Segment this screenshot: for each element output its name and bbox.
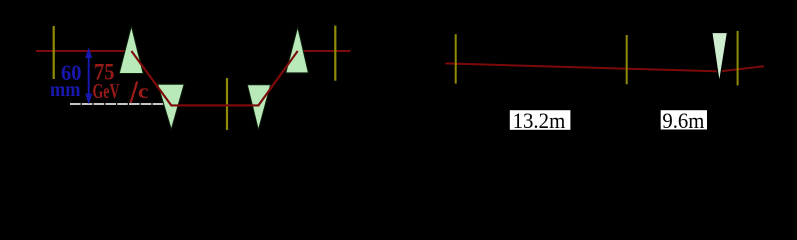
- redraw beamline over triangles where it crosses: [131, 51, 297, 105]
- slash of GeV/c: [131, 82, 138, 104]
- magnet T3 (down triangle): [247, 85, 270, 130]
- node: reference dashed level line: [70, 103, 164, 105]
- svg-text:13.2m: 13.2m: [513, 108, 566, 133]
- svg-text:mm: mm: [50, 79, 81, 101]
- svg-text:9.6m: 9.6m: [662, 108, 704, 133]
- magnet T5 (narrow down triangle): [712, 33, 728, 84]
- svg-text:c: c: [138, 79, 149, 103]
- transistor-like magnet T1 (up triangle): [119, 26, 143, 74]
- wire: quad marker tick 3: [334, 26, 336, 81]
- wire: left beamline trajectory: [36, 51, 351, 105]
- magnet T4 (up triangle): [286, 27, 309, 73]
- wire: quad marker tick 6: [737, 31, 739, 85]
- wire: quad marker tick 1: [53, 26, 55, 79]
- wire: right beamline trajectory: [445, 63, 764, 71]
- label box 13.2m: [510, 110, 571, 130]
- label box 9.6m: [661, 110, 707, 129]
- dimension arrow (blue, double headed): [85, 47, 92, 104]
- svg-text:GeV: GeV: [93, 79, 120, 103]
- magnet T2 (down triangle): [158, 84, 184, 129]
- wire: quad marker tick 2: [226, 78, 228, 130]
- wire: quad marker tick 4: [455, 34, 457, 83]
- wire: quad marker tick 5: [626, 35, 628, 84]
